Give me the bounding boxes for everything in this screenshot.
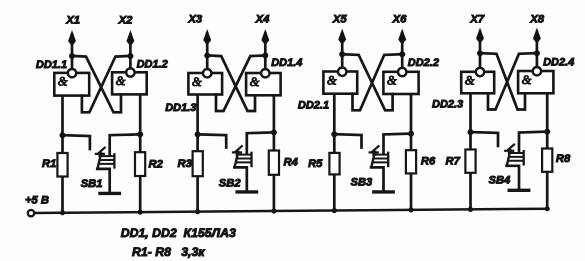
arrow head output X2 xyxy=(127,32,134,46)
svg-text:&: & xyxy=(58,75,68,89)
svg-text:&: & xyxy=(522,73,532,87)
pushbutton SB4 contact plates xyxy=(509,152,524,154)
terminal +5V input xyxy=(28,210,34,216)
arrow head output X5 xyxy=(339,30,346,44)
svg-text:R7: R7 xyxy=(446,156,461,168)
resistor R2 body xyxy=(135,152,145,176)
wire SB3 left feed xyxy=(336,134,362,147)
svg-text:DD2.1: DD2.1 xyxy=(298,100,329,112)
svg-text:R2: R2 xyxy=(149,158,164,170)
wire cross-couple DD2.2 output to DD2.1 input xyxy=(353,54,401,110)
wire output X7 shaft xyxy=(479,32,482,68)
NAND gate DD1.3 body xyxy=(188,73,222,95)
svg-text:DD1.4: DD1.4 xyxy=(271,57,302,69)
node X7 branch junction xyxy=(477,50,483,56)
wire right input column block 3 xyxy=(410,93,413,210)
NAND gate DD1.3 output inversion bubble xyxy=(203,69,211,77)
wire right input column block 4 xyxy=(546,92,549,208)
resistor R8 body xyxy=(542,149,552,172)
NAND gate DD2.2 output inversion bubble xyxy=(398,68,406,76)
svg-text:R3: R3 xyxy=(178,158,193,170)
resistor R7 body xyxy=(465,150,475,173)
wire SB3 common to ground xyxy=(371,167,383,190)
NAND gate DD1.2 output inversion bubble xyxy=(126,68,134,76)
svg-text:R8: R8 xyxy=(556,153,571,165)
svg-text:&: & xyxy=(465,74,475,88)
wire SB2 common to ground xyxy=(234,167,246,190)
wire cross-couple DD2.3 output to DD2.4 input xyxy=(482,53,525,109)
ground chassis bar SB1 xyxy=(100,192,119,195)
svg-text:R1: R1 xyxy=(42,158,56,170)
NAND gate DD2.2 body xyxy=(383,72,418,94)
node bus junction left block 4 xyxy=(468,207,473,212)
resistor R5 body xyxy=(329,153,339,175)
pushbutton SB2 actuator cap xyxy=(235,146,242,152)
svg-text:R4: R4 xyxy=(284,156,299,168)
pushbutton SB4 movable contact lever xyxy=(507,150,511,165)
svg-text:SB1: SB1 xyxy=(81,178,103,190)
node bus junction right block 4 xyxy=(545,206,550,211)
svg-text:DD2.3: DD2.3 xyxy=(432,98,463,110)
arrow head output X4 xyxy=(262,31,269,45)
svg-text:X7: X7 xyxy=(469,13,485,25)
node switch tap right block 1 xyxy=(137,131,143,137)
node X6 branch junction xyxy=(399,51,405,57)
ground chassis bar SB4 xyxy=(509,189,528,192)
node switch tap left block 4 xyxy=(468,129,474,135)
node X8 branch junction xyxy=(534,50,540,56)
svg-text:SB2: SB2 xyxy=(219,178,242,190)
wire output X2 shaft xyxy=(129,35,132,69)
svg-text:DD2.4: DD2.4 xyxy=(543,57,574,69)
svg-text:R1- R8 3,3к: R1- R8 3,3к xyxy=(132,245,205,259)
svg-text:X3: X3 xyxy=(187,13,203,25)
wire cross-couple DD1.3 output to DD1.4 input xyxy=(209,56,255,112)
NAND gate DD2.1 body xyxy=(323,72,357,94)
pushbutton SB3 movable contact lever xyxy=(371,152,375,167)
wire output X8 shaft xyxy=(536,32,539,67)
NAND gate DD1.4 output inversion bubble xyxy=(261,69,269,77)
arrow head output X8 xyxy=(534,29,541,43)
svg-text:SB3: SB3 xyxy=(351,176,374,188)
node X2 branch junction xyxy=(127,53,133,59)
arrow head output X1 xyxy=(69,32,76,46)
node switch tap left block 2 xyxy=(195,131,201,137)
arrow head output X6 xyxy=(399,30,406,44)
wire right input column block 1 xyxy=(139,93,142,212)
wire SB3 right feed xyxy=(384,134,410,153)
wire left input column block 4 xyxy=(469,92,472,209)
wire SB2 right feed xyxy=(247,132,273,152)
node switch tap left block 1 xyxy=(60,132,66,138)
svg-text:DD2.2: DD2.2 xyxy=(408,57,439,69)
node X4 branch junction xyxy=(262,53,268,59)
node X3 branch junction xyxy=(204,53,210,59)
node bus junction right block 3 xyxy=(408,207,413,212)
wire left input column block 1 xyxy=(61,94,64,212)
svg-text:X6: X6 xyxy=(392,13,408,25)
wire cross-couple DD1.2 output to DD1.1 input xyxy=(82,56,128,112)
wire output X1 shaft xyxy=(71,35,74,69)
pushbutton SB1 contact plates xyxy=(100,155,115,157)
NAND gate DD1.1 body xyxy=(54,73,89,96)
node X1 branch junction xyxy=(69,53,75,59)
resistor R1 body xyxy=(57,153,67,177)
wire SB2 left feed xyxy=(199,134,226,147)
wire output X6 shaft xyxy=(401,33,404,68)
ground chassis bar SB2 xyxy=(237,190,256,193)
wire SB4 common to ground xyxy=(507,166,519,189)
svg-text:&: & xyxy=(192,75,202,89)
wire left input column block 2 xyxy=(196,93,199,211)
wire output X4 shaft xyxy=(264,34,267,70)
svg-text:DD1.3: DD1.3 xyxy=(165,102,196,114)
NAND gate DD2.3 body xyxy=(461,72,494,94)
NAND gate DD1.2 body xyxy=(112,72,147,94)
svg-text:&: & xyxy=(250,75,260,89)
pushbutton SB2 contact plates xyxy=(237,154,252,156)
wire cross-couple DD1.1 output to DD1.2 input xyxy=(74,56,121,112)
NAND gate DD2.4 body xyxy=(518,71,553,93)
svg-text:+5 В: +5 В xyxy=(25,195,49,207)
svg-text:DD1.2: DD1.2 xyxy=(137,59,168,71)
svg-text:R5: R5 xyxy=(308,158,323,170)
svg-text:DD1, DD2 К155ЛА3: DD1, DD2 К155ЛА3 xyxy=(121,226,236,240)
pushbutton SB1 actuator cap xyxy=(98,148,105,154)
resistor R6 body xyxy=(406,150,416,173)
arrow head output X7 xyxy=(477,29,484,43)
wire cross-couple DD2.1 output to DD2.2 input xyxy=(344,54,392,110)
pushbutton SB4 actuator cap xyxy=(507,145,514,151)
NAND gate DD2.4 output inversion bubble xyxy=(533,67,541,75)
node X5 branch junction xyxy=(339,51,345,57)
wire SB4 right feed xyxy=(519,132,546,152)
svg-text:DD1.1: DD1.1 xyxy=(36,59,67,71)
resistor R3 body xyxy=(193,151,203,176)
svg-text:X4: X4 xyxy=(255,13,271,25)
ground chassis bar SB3 xyxy=(374,190,393,193)
svg-text:X1: X1 xyxy=(65,15,80,27)
wire cross-couple DD2.4 output to DD2.3 input xyxy=(488,53,535,109)
node switch tap right block 2 xyxy=(271,129,277,135)
wire cross-couple DD1.4 output to DD1.3 input xyxy=(216,56,263,112)
wire SB1 common to ground xyxy=(97,169,109,192)
NAND gate DD2.3 output inversion bubble xyxy=(476,68,484,76)
wire SB1 right feed xyxy=(110,134,139,154)
svg-text:SB4: SB4 xyxy=(489,175,512,187)
node bus junction right block 1 xyxy=(138,210,143,215)
node switch tap right block 4 xyxy=(544,129,550,135)
node bus junction left block 2 xyxy=(195,209,200,214)
svg-text:R6: R6 xyxy=(421,155,436,167)
node bus junction right block 2 xyxy=(271,208,276,213)
power bus +5V xyxy=(34,209,547,213)
resistor R4 body xyxy=(269,151,279,175)
wire right input column block 2 xyxy=(273,94,276,211)
wire output X3 shaft xyxy=(206,34,209,70)
node switch tap left block 3 xyxy=(331,131,337,137)
node bus junction left block 1 xyxy=(60,210,65,215)
svg-text:&: & xyxy=(116,74,126,88)
wire left input column block 3 xyxy=(333,92,336,210)
wire SB4 left feed xyxy=(472,132,498,146)
NAND gate DD1.4 body xyxy=(246,73,281,95)
svg-text:X2: X2 xyxy=(118,15,134,27)
svg-text:&: & xyxy=(387,74,397,88)
svg-text:&: & xyxy=(327,73,337,87)
NAND gate DD2.1 output inversion bubble xyxy=(338,68,346,76)
NAND gate DD1.1 output inversion bubble xyxy=(68,69,76,77)
svg-text:X5: X5 xyxy=(332,13,348,25)
svg-text:X8: X8 xyxy=(529,13,545,25)
arrow head output X3 xyxy=(204,31,211,45)
pushbutton SB1 movable contact lever xyxy=(98,153,102,168)
node bus junction left block 3 xyxy=(332,208,337,213)
wire output X5 shaft xyxy=(341,33,344,68)
node switch tap right block 3 xyxy=(408,131,414,137)
pushbutton SB3 contact plates xyxy=(373,154,388,156)
wire SB1 left feed xyxy=(64,135,90,149)
pushbutton SB3 actuator cap xyxy=(372,146,379,152)
pushbutton SB2 movable contact lever xyxy=(235,152,239,167)
